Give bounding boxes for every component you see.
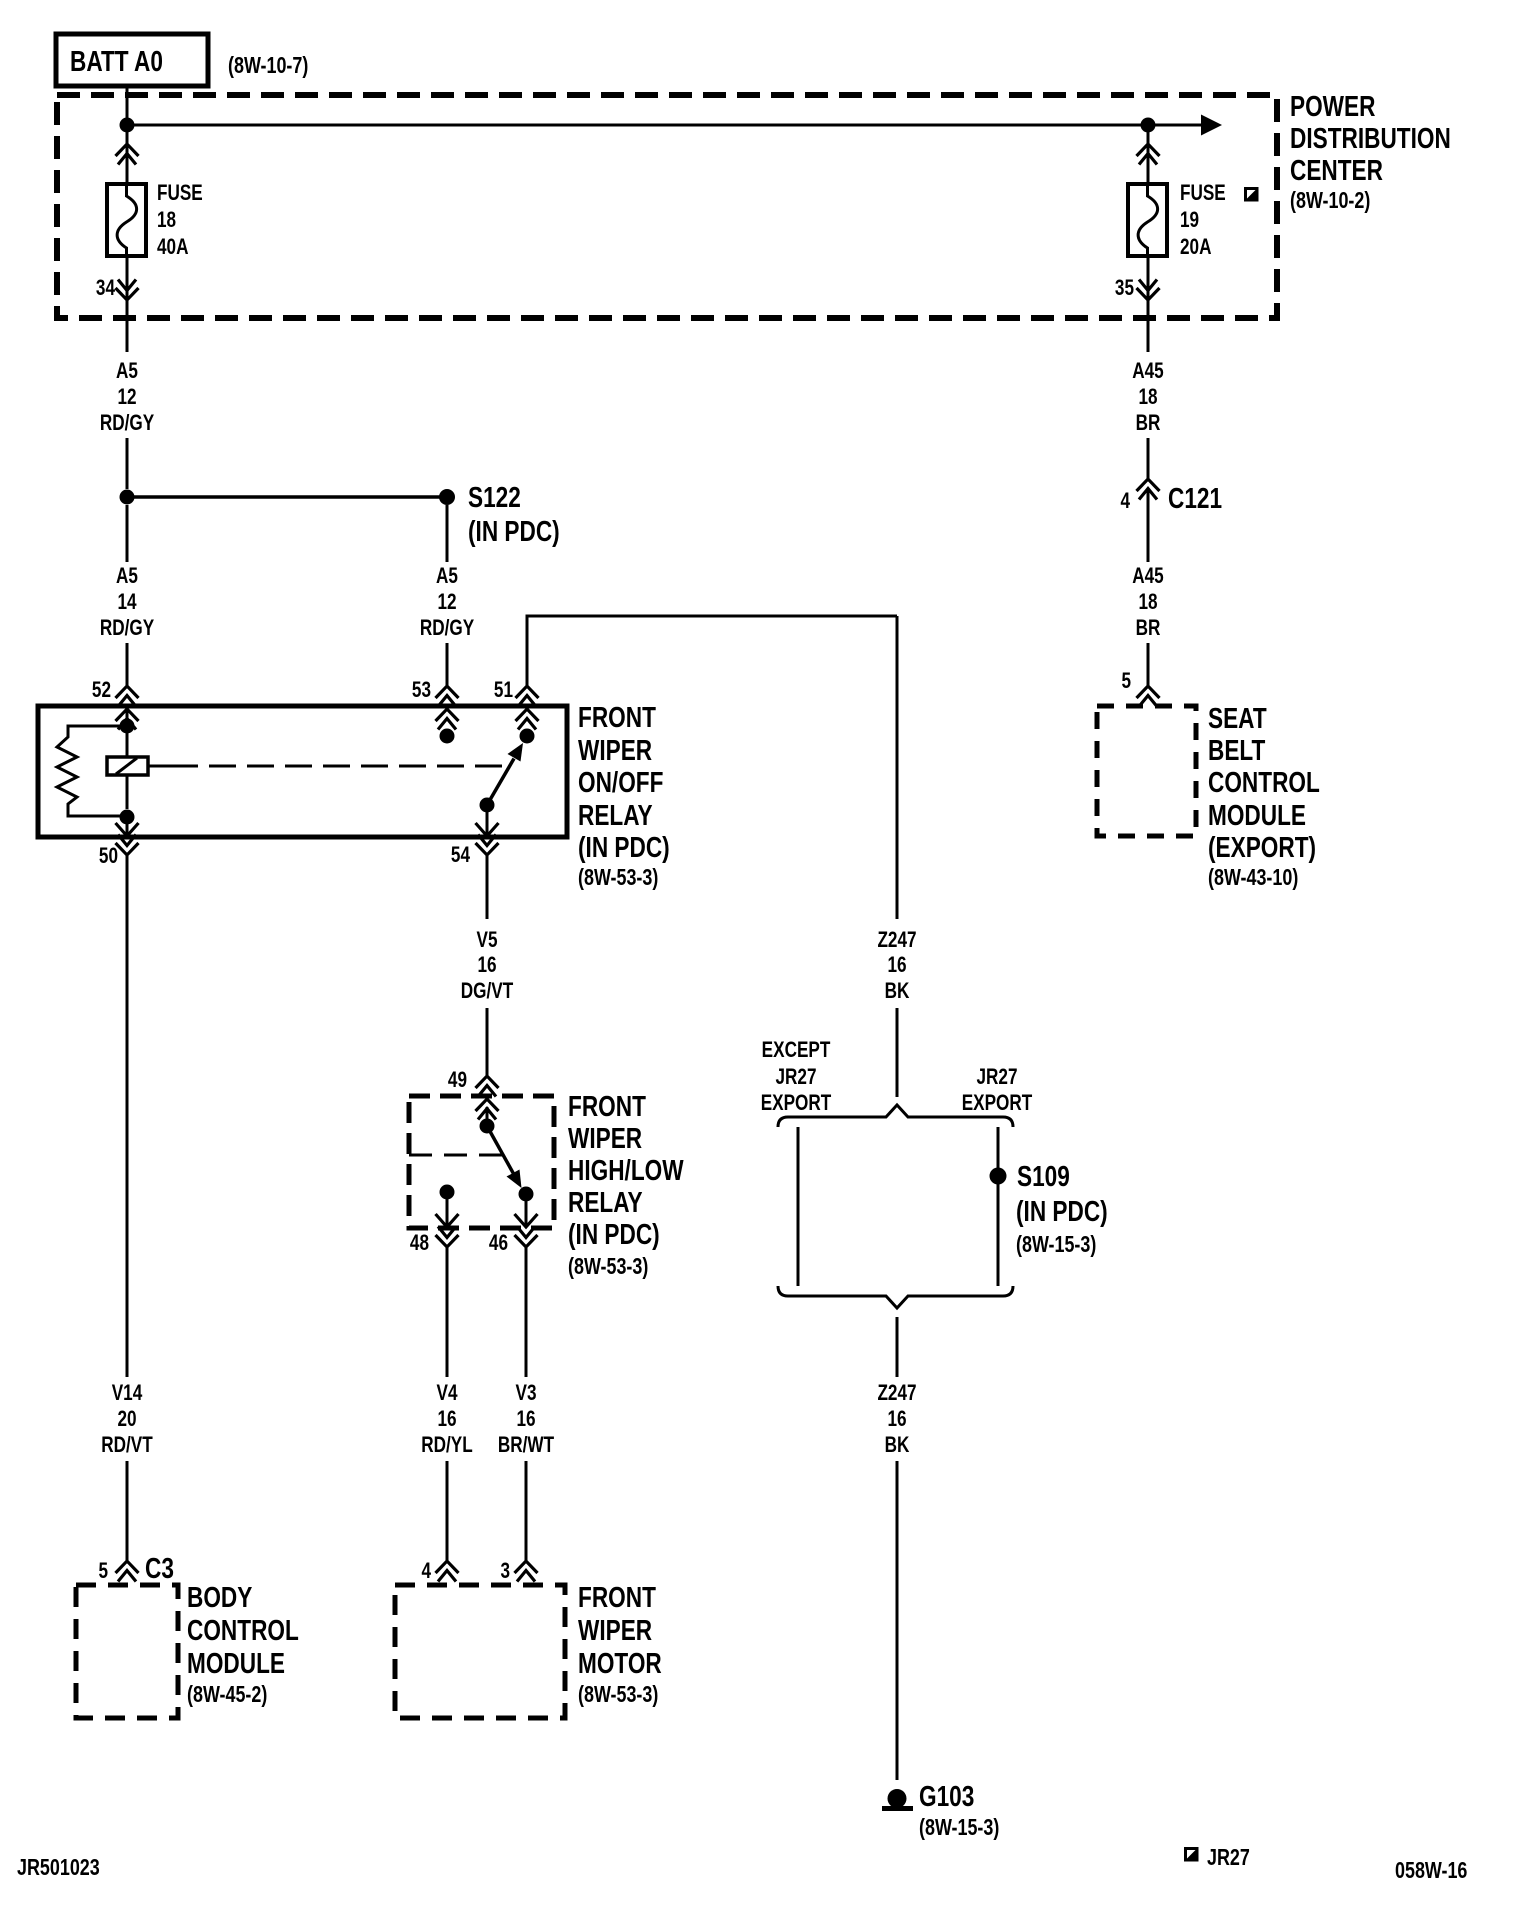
svg-text:(8W-53-3): (8W-53-3) <box>578 1682 658 1708</box>
node junction left on bus <box>120 118 135 133</box>
svg-text:4: 4 <box>421 1559 431 1584</box>
resistor (relay clamping resistor) <box>57 726 127 816</box>
splice S109 dot <box>990 1168 1007 1185</box>
ground G103 <box>882 1789 913 1809</box>
wire alternate path right <box>997 1127 1000 1286</box>
connector pin 54 chevrons <box>476 823 499 855</box>
svg-text:12: 12 <box>117 385 136 410</box>
svg-text:34: 34 <box>96 276 115 301</box>
svg-text:A5: A5 <box>116 564 138 589</box>
wire bus to fuse 19 <box>1147 125 1150 184</box>
svg-text:BATT A0: BATT A0 <box>70 44 163 77</box>
wire below S122 <box>446 505 449 562</box>
connector pin 5 chevron (seat belt) <box>1137 686 1160 707</box>
pin 52 <box>92 678 111 703</box>
node pin 53 dot inside relay <box>440 729 455 744</box>
svg-text:50: 50 <box>99 844 118 869</box>
reference (8W-10-7) <box>228 53 308 79</box>
svg-text:DG/VT: DG/VT <box>461 979 513 1004</box>
wire pin 48 down <box>446 1247 449 1377</box>
label S122 (IN PDC) <box>468 480 560 547</box>
svg-text:FUSE: FUSE <box>1180 181 1226 206</box>
wire alternate path left <box>797 1127 800 1286</box>
wire to relay pin 52 <box>126 643 129 686</box>
brace bottom (alternate wiring) <box>778 1286 1013 1308</box>
svg-text:16: 16 <box>887 953 906 978</box>
connector C121 chevrons <box>1137 479 1160 500</box>
pin 50 <box>99 844 118 869</box>
svg-text:(IN PDC): (IN PDC) <box>568 1217 660 1250</box>
svg-text:058W-16: 058W-16 <box>1395 1858 1467 1884</box>
svg-text:EXCEPT: EXCEPT <box>762 1038 831 1063</box>
relay coil <box>107 726 148 809</box>
svg-text:4: 4 <box>1120 489 1130 514</box>
node pin 48 dot inside K2 <box>440 1185 455 1200</box>
connector pin 50 chevrons <box>116 823 139 855</box>
connector pin 3 chevron (motor) <box>515 1561 538 1582</box>
wire to splice S122 level <box>126 438 129 489</box>
svg-text:(8W-10-2): (8W-10-2) <box>1290 188 1370 214</box>
svg-text:BK: BK <box>885 1433 910 1458</box>
svg-text:WIPER: WIPER <box>568 1121 642 1154</box>
svg-text:BELT: BELT <box>1208 733 1265 766</box>
svg-text:(8W-53-3): (8W-53-3) <box>568 1254 648 1280</box>
connector pin 49 chevrons <box>476 1076 499 1120</box>
node switch pivot dot <box>480 798 495 813</box>
svg-text:CONTROL: CONTROL <box>187 1613 299 1646</box>
svg-text:18: 18 <box>157 208 176 233</box>
svg-text:53: 53 <box>412 678 431 703</box>
svg-text:SEAT: SEAT <box>1208 701 1267 734</box>
svg-text:C121: C121 <box>1168 481 1222 514</box>
pin 51 <box>494 678 513 703</box>
svg-text:51: 51 <box>494 678 513 703</box>
pin 35 <box>1115 276 1134 301</box>
svg-text:V5: V5 <box>477 928 498 953</box>
svg-text:WIPER: WIPER <box>578 733 652 766</box>
label BODY CONTROL MODULE (8W-45-2) <box>187 1580 299 1707</box>
wire pin 48 dot to edge <box>446 1192 449 1227</box>
module FRONT WIPER MOTOR box (dashed) <box>395 1585 565 1718</box>
relay K2 FRONT WIPER HIGH/LOW RELAY box (dashed) <box>409 1096 554 1228</box>
svg-text:POWER: POWER <box>1290 89 1376 122</box>
svg-text:RD/GY: RD/GY <box>100 616 154 641</box>
wire pin 52 into relay <box>126 709 129 726</box>
svg-text:16: 16 <box>477 953 496 978</box>
svg-text:Z247: Z247 <box>877 1381 916 1406</box>
wire label Z247 16 BK (lower) <box>877 1381 916 1458</box>
switch arm relay K2 <box>487 1126 522 1188</box>
wire pivot to pin 54 <box>486 812 489 836</box>
svg-text:G103: G103 <box>919 1779 974 1812</box>
wire pin 54 down <box>486 855 489 919</box>
svg-text:RD/YL: RD/YL <box>421 1433 472 1458</box>
pin 4 (motor) <box>421 1559 431 1584</box>
label FRONT WIPER ON/OFF RELAY (IN PDC) (8W-53-3) <box>578 700 670 890</box>
connector pin 48 chevrons <box>436 1214 459 1247</box>
wire fuse 19 to label A45 <box>1147 256 1150 352</box>
svg-text:JR501023: JR501023 <box>17 1855 100 1881</box>
svg-text:19: 19 <box>1180 208 1199 233</box>
svg-text:(8W-15-3): (8W-15-3) <box>1016 1232 1096 1258</box>
connector pin 51 chevrons <box>516 686 539 730</box>
svg-text:3: 3 <box>500 1559 510 1584</box>
connector pin 46 chevrons <box>515 1214 538 1247</box>
connector pin 5 chevron (BCM) <box>116 1561 139 1582</box>
wire C121 down <box>1147 490 1150 562</box>
svg-text:RD/GY: RD/GY <box>100 411 154 436</box>
wire label V3 16 BR/WT <box>498 1381 554 1458</box>
pin 49 <box>448 1068 467 1093</box>
relay K1 FRONT WIPER ON/OFF RELAY box <box>38 706 567 837</box>
svg-text:MODULE: MODULE <box>1208 798 1306 831</box>
label FRONT WIPER HIGH/LOW RELAY (IN PDC) (8W-53-3) <box>568 1089 684 1279</box>
svg-text:V3: V3 <box>516 1381 537 1406</box>
wire label A45 18 BR (upper) <box>1132 359 1163 436</box>
footer JR27 <box>1207 1845 1250 1871</box>
svg-text:CONTROL: CONTROL <box>1208 765 1320 798</box>
svg-text:5: 5 <box>1121 669 1131 694</box>
svg-text:FRONT: FRONT <box>568 1089 646 1122</box>
wire to relay pin 53 <box>446 643 449 686</box>
wire below bottom brace <box>896 1317 899 1377</box>
fuse 19 <box>1128 184 1167 256</box>
connector chevrons above fuse 18 <box>116 144 139 165</box>
wire below left splice <box>126 505 129 562</box>
pin 48 <box>410 1231 429 1256</box>
wire V5 to relay pin 49 <box>486 1008 489 1076</box>
wire BATT A0 to bus <box>126 86 129 125</box>
svg-text:MODULE: MODULE <box>187 1646 285 1679</box>
module SEAT BELT CONTROL MODULE box (dashed) <box>1097 706 1196 836</box>
label SEAT BELT CONTROL MODULE (EXPORT) (8W-43-10) <box>1208 701 1320 890</box>
svg-text:CENTER: CENTER <box>1290 153 1383 186</box>
wire pin 46 dot to edge <box>525 1194 528 1227</box>
svg-text:A45: A45 <box>1132 359 1163 384</box>
wire V14 to BCM pin 5 <box>126 1461 129 1561</box>
pin 34 <box>96 276 115 301</box>
svg-text:S109: S109 <box>1017 1159 1070 1192</box>
node switch pivot dot K2 <box>480 1119 495 1134</box>
node pin 46 dot inside K2 <box>519 1187 534 1202</box>
svg-text:(8W-15-3): (8W-15-3) <box>919 1815 999 1841</box>
svg-text:(IN PDC): (IN PDC) <box>1016 1194 1108 1227</box>
wire pin 50 long run down <box>126 855 129 1377</box>
svg-text:FRONT: FRONT <box>578 1580 656 1613</box>
pin 5 (BCM) <box>98 1559 108 1584</box>
wire Z247 branch down <box>896 616 899 919</box>
box POWER DISTRIBUTION CENTER (dashed, in PDC) <box>57 95 1277 318</box>
label G103 (8W-15-3) <box>919 1779 999 1840</box>
connector C121 <box>1168 481 1222 514</box>
svg-text:Z247: Z247 <box>877 928 916 953</box>
svg-text:V4: V4 <box>437 1381 458 1406</box>
svg-text:54: 54 <box>451 843 470 868</box>
node pin 51 dot inside relay <box>520 729 535 744</box>
label JR27 EXPORT <box>962 1065 1033 1116</box>
wire label V4 16 RD/YL <box>421 1381 472 1458</box>
footer 058W-16 <box>1395 1858 1467 1884</box>
pin 3 (motor) <box>500 1559 510 1584</box>
svg-text:35: 35 <box>1115 276 1134 301</box>
connector pin 52 chevrons <box>116 686 139 730</box>
footer sheet number JR501023 <box>17 1855 100 1881</box>
svg-text:RELAY: RELAY <box>578 798 653 831</box>
splice S122 dot <box>439 489 455 505</box>
svg-text:16: 16 <box>437 1407 456 1432</box>
svg-text:DISTRIBUTION: DISTRIBUTION <box>1290 121 1451 154</box>
connector chevrons above fuse 19 <box>1137 144 1160 165</box>
pin 46 <box>489 1231 508 1256</box>
wire pin 46 down <box>525 1247 528 1377</box>
wire V3 to motor pin 3 <box>525 1461 528 1561</box>
svg-text:MOTOR: MOTOR <box>578 1646 662 1679</box>
svg-text:46: 46 <box>489 1231 508 1256</box>
label S109 (IN PDC) (8W-15-3) <box>1016 1159 1108 1257</box>
pin 4 (C121) <box>1120 489 1130 514</box>
svg-text:20A: 20A <box>1180 235 1211 260</box>
brace top (alternate wiring) <box>778 1105 1013 1127</box>
wire from bus Z247 branch down to pin 51 <box>527 616 897 686</box>
wire label A5 14 RD/GY <box>100 564 154 641</box>
svg-text:RD/VT: RD/VT <box>101 1433 152 1458</box>
wire fuse 18 to label A5 <box>126 256 129 352</box>
wire Z247 to ground <box>896 1461 899 1780</box>
node coil bottom dot <box>120 810 135 825</box>
label POWER DISTRIBUTION CENTER (8W-10-2) <box>1290 89 1451 213</box>
pin 53 <box>412 678 431 703</box>
svg-text:(EXPORT): (EXPORT) <box>1208 830 1316 863</box>
svg-text:EXPORT: EXPORT <box>962 1091 1033 1116</box>
svg-text:52: 52 <box>92 678 111 703</box>
svg-text:16: 16 <box>516 1407 535 1432</box>
wire splice horizontal to S122 <box>127 495 447 499</box>
svg-text:(8W-45-2): (8W-45-2) <box>187 1682 267 1708</box>
svg-text:V14: V14 <box>112 1381 143 1406</box>
svg-text:JR27: JR27 <box>1207 1845 1250 1871</box>
connector pin 53 chevrons <box>436 686 459 730</box>
svg-text:(IN PDC): (IN PDC) <box>578 830 670 863</box>
wire label V14 20 RD/VT <box>101 1381 152 1458</box>
wire pin 49 to switch pivot <box>486 1107 489 1126</box>
label FUSE 18 40A <box>157 181 203 260</box>
svg-text:JR27: JR27 <box>976 1065 1017 1090</box>
wire label A5 12 RD/GY (left) <box>100 359 154 436</box>
svg-text:48: 48 <box>410 1231 429 1256</box>
svg-text:5: 5 <box>98 1559 108 1584</box>
footer JR27 icon <box>1185 1849 1197 1861</box>
svg-text:A45: A45 <box>1132 564 1163 589</box>
wire to connector C121 <box>1147 438 1150 479</box>
svg-text:S122: S122 <box>468 480 521 513</box>
svg-text:RELAY: RELAY <box>568 1185 643 1218</box>
wire V4 to motor pin 4 <box>446 1461 449 1561</box>
wire label V5 16 DG/VT <box>461 928 513 1004</box>
svg-text:BR: BR <box>1136 616 1161 641</box>
svg-text:HIGH/LOW: HIGH/LOW <box>568 1153 684 1186</box>
connector chevrons pin 34 <box>116 280 139 301</box>
wire bus to fuse 18 <box>126 125 129 184</box>
wire label Z247 16 BK (upper) <box>877 928 916 1004</box>
switch arm relay K1 <box>487 743 523 805</box>
node coil top dot <box>120 719 135 734</box>
svg-text:12: 12 <box>437 590 456 615</box>
wire bus A0 with arrow <box>127 115 1222 136</box>
svg-text:20: 20 <box>117 1407 136 1432</box>
connector C3 <box>145 1551 174 1584</box>
svg-text:14: 14 <box>117 590 136 615</box>
label FUSE 19 20A <box>1180 181 1226 260</box>
fuse 18 <box>107 184 146 256</box>
svg-text:EXPORT: EXPORT <box>761 1091 832 1116</box>
svg-text:BK: BK <box>885 979 910 1004</box>
label EXCEPT JR27 EXPORT <box>761 1038 832 1116</box>
module BODY CONTROL MODULE box (dashed) <box>76 1585 178 1718</box>
wire coil linkage K2 (dashed) <box>409 1154 502 1157</box>
connector pin 4 chevron (motor) <box>436 1561 459 1582</box>
connector box BATT A0 <box>56 34 208 86</box>
svg-text:(IN PDC): (IN PDC) <box>468 514 560 547</box>
pin 5 (seat belt) <box>1121 669 1131 694</box>
hot-at-all-times icon (fuse 19) <box>1245 189 1257 201</box>
svg-text:FRONT: FRONT <box>578 700 656 733</box>
svg-text:ON/OFF: ON/OFF <box>578 765 663 798</box>
svg-text:(8W-43-10): (8W-43-10) <box>1208 865 1298 891</box>
svg-text:BR/WT: BR/WT <box>498 1433 554 1458</box>
svg-text:A5: A5 <box>116 359 138 384</box>
svg-text:16: 16 <box>887 1407 906 1432</box>
node junction right on bus <box>1141 118 1156 133</box>
node splice left dot <box>120 490 135 505</box>
pin 54 <box>451 843 470 868</box>
svg-text:C3: C3 <box>145 1551 174 1584</box>
svg-text:49: 49 <box>448 1068 467 1093</box>
wire coil to pin 50 <box>126 817 129 836</box>
wire label A45 18 BR (lower) <box>1132 564 1163 641</box>
svg-text:18: 18 <box>1138 385 1157 410</box>
wire Z247 to alternate-path brace <box>896 1008 899 1097</box>
svg-text:BODY: BODY <box>187 1580 252 1613</box>
wire label A5 12 RD/GY (middle) <box>420 564 474 641</box>
svg-text:(8W-10-7): (8W-10-7) <box>228 53 308 79</box>
wire coil linkage (dashed) <box>148 765 505 768</box>
svg-text:WIPER: WIPER <box>578 1613 652 1646</box>
label FRONT WIPER MOTOR (8W-53-3) <box>578 1580 662 1707</box>
svg-text:18: 18 <box>1138 590 1157 615</box>
svg-text:FUSE: FUSE <box>157 181 203 206</box>
svg-text:BR: BR <box>1136 411 1161 436</box>
svg-text:JR27: JR27 <box>775 1065 816 1090</box>
svg-text:(8W-53-3): (8W-53-3) <box>578 865 658 891</box>
wire to seat belt module pin 5 <box>1147 643 1150 686</box>
connector chevrons pin 35 <box>1137 280 1160 301</box>
svg-text:40A: 40A <box>157 235 188 260</box>
svg-text:A5: A5 <box>436 564 458 589</box>
svg-text:RD/GY: RD/GY <box>420 616 474 641</box>
